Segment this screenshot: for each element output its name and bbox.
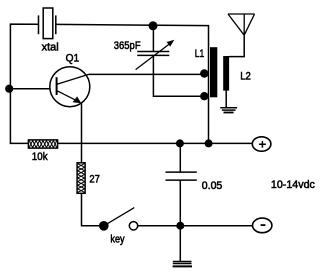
svg-text:365pF: 365pF	[114, 40, 141, 52]
svg-text:0.05: 0.05	[202, 180, 223, 192]
svg-text:Q1: Q1	[66, 52, 80, 64]
svg-text:10-14vdc: 10-14vdc	[271, 179, 315, 191]
svg-text:L2: L2	[240, 71, 251, 83]
svg-text:xtal: xtal	[42, 42, 59, 54]
svg-text:27: 27	[89, 174, 100, 186]
svg-text:L1: L1	[195, 48, 205, 60]
svg-text:key: key	[110, 233, 125, 245]
svg-text:10k: 10k	[32, 151, 48, 163]
